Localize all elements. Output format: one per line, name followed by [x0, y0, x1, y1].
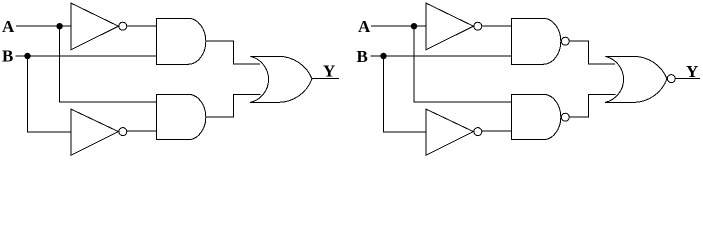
wire B branch to lower NOT (left) [28, 56, 72, 132]
AND gate U2 (top AND, left) [156, 18, 205, 64]
NAND gate U7 (top NAND, right) [511, 18, 569, 64]
wire A input (left) [16, 25, 71, 27]
node A junction dot (left) [56, 23, 62, 29]
wire U8 output to U9 [482, 130, 511, 132]
NAND gate U9 (bottom NAND, right) [511, 94, 569, 139]
wire U9 output to NOR (right) [570, 94, 616, 117]
wire B input (left) [15, 55, 156, 57]
svg-text:Y: Y [686, 62, 698, 81]
svg-text:B: B [2, 47, 13, 66]
wire Y output (right) [676, 78, 700, 80]
wire B branch to lower NOT (right) [384, 56, 427, 132]
wire U3 output to U4 [127, 130, 156, 132]
svg-text:Y: Y [323, 62, 335, 81]
wire U6 output to U7 [482, 25, 511, 27]
svg-text:B: B [357, 47, 368, 66]
wire U4 output to OR (left) [206, 94, 261, 117]
wire B input (right) [370, 55, 511, 57]
NOR gate U10 (right) [605, 56, 675, 102]
wire U7 output to NOR (right) [570, 41, 615, 64]
svg-text:A: A [358, 17, 371, 36]
node B junction dot (right) [380, 53, 386, 59]
wire A branch to lower AND (left) [60, 26, 157, 102]
inverter U6 (top NOT, right) [426, 3, 482, 49]
wire A input (right) [371, 25, 426, 27]
inverter U1 (top NOT, left) [71, 3, 127, 49]
wire A branch to lower NAND (right) [414, 26, 511, 102]
AND gate U4 (bottom AND, left) [156, 94, 205, 139]
inverter U3 (bottom NOT, left) [71, 109, 127, 155]
wire U2 output to OR (left) [206, 41, 260, 64]
svg-text:A: A [2, 17, 15, 36]
node B junction dot (left) [24, 53, 30, 59]
OR gate U5 (left) [250, 56, 312, 102]
wire Y output (left) [312, 78, 339, 80]
node A junction dot (right) [411, 23, 417, 29]
wire U1 output to U2 [127, 25, 156, 27]
inverter U8 (bottom NOT, right) [426, 109, 482, 155]
